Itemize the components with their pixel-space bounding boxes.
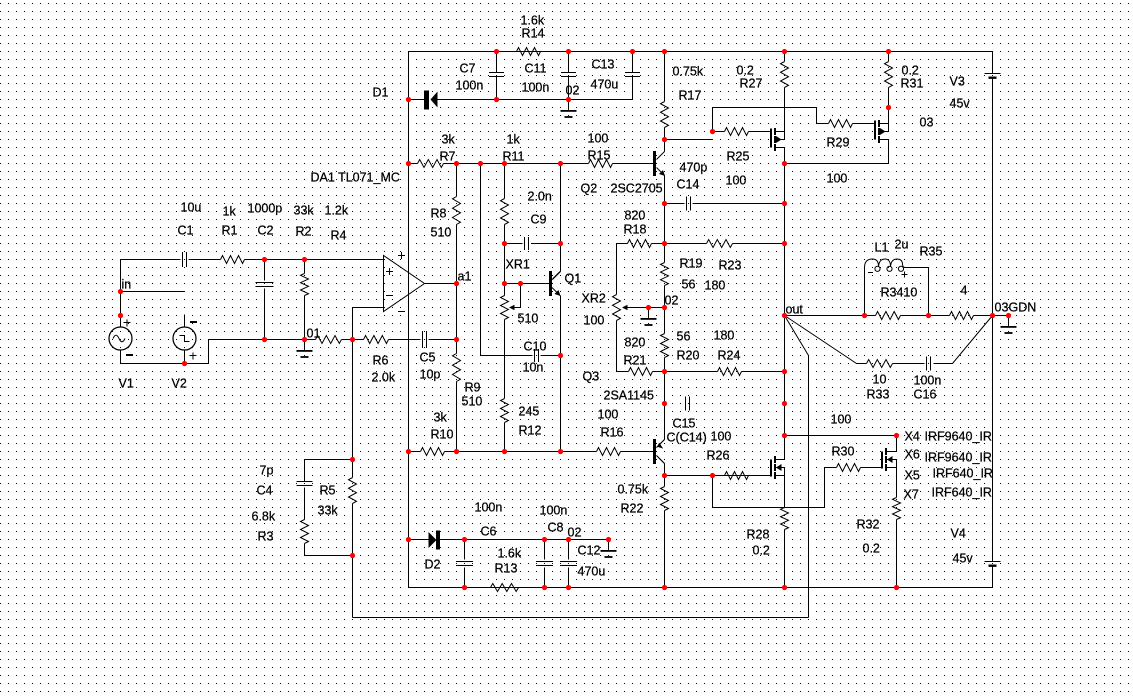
junction dot (264,259) bbox=[262, 257, 267, 262]
svg-text:R28: R28 bbox=[747, 528, 770, 542]
transistor Q3 2SA1145 (PNP) bbox=[653, 439, 665, 464]
wire y=507 gate-bias to source tie bbox=[713, 507, 825, 509]
junction dot (712,131) bbox=[710, 129, 715, 134]
svg-text:R6: R6 bbox=[373, 354, 389, 368]
wire R21 left lead y=371 bbox=[617, 371, 629, 373]
XR2 wiper arrowhead bbox=[622, 305, 628, 311]
svg-text:03: 03 bbox=[920, 116, 934, 130]
svg-text:2SC2705: 2SC2705 bbox=[611, 182, 663, 196]
capacitor C15 C(C14) bbox=[686, 397, 690, 411]
svg-text:2SA1145: 2SA1145 bbox=[604, 389, 655, 403]
svg-text:R3: R3 bbox=[258, 530, 274, 544]
wire R29 left riser bbox=[816, 108, 818, 124]
junction dot (928,315) bbox=[926, 313, 931, 318]
wire a1 down to C5/R9 node bbox=[456, 284, 458, 340]
resistor R12 245 bbox=[501, 399, 509, 423]
wire R29 to upper-right MOSFET gate bbox=[853, 123, 876, 125]
svg-text:02: 02 bbox=[665, 294, 679, 308]
svg-text:X5: X5 bbox=[905, 469, 920, 483]
svg-text:10u: 10u bbox=[181, 201, 202, 215]
wire R30 to lower-right MOSFET gate bbox=[861, 467, 883, 469]
junction dot (664,243) bbox=[662, 241, 667, 246]
diode D1 bbox=[424, 91, 438, 110]
resistor R31 0.2 bbox=[885, 62, 893, 88]
wire R33 left lead bbox=[857, 363, 867, 365]
junction dot (480,163) bbox=[478, 161, 483, 166]
mosfet upper-right X-IRF9640 (R29 gate) bbox=[875, 120, 889, 143]
wire C5 to R9 top node bbox=[429, 339, 457, 341]
wire R6 left lead bbox=[353, 339, 364, 341]
ground at node 02 (top) bbox=[561, 100, 577, 118]
svg-text:100n: 100n bbox=[456, 79, 484, 93]
svg-text:IRF640_IR: IRF640_IR bbox=[933, 467, 993, 481]
wire Q3 collector diagonal bbox=[657, 456, 665, 464]
potentiometer XR1 510 body bbox=[501, 296, 509, 320]
junction dot (784,163) bbox=[782, 161, 787, 166]
svg-text:R30: R30 bbox=[832, 445, 855, 459]
capacitor C12 470u bbox=[560, 562, 577, 566]
capacitor C11 100n bbox=[561, 73, 576, 77]
wire top +45V rail (net to V3+) bbox=[409, 51, 993, 53]
wire R35 to GDN/ground bbox=[974, 315, 1009, 317]
svg-text:C16: C16 bbox=[914, 388, 937, 402]
junction dot (408,163) bbox=[406, 161, 411, 166]
svg-text:IRF9640_IR: IRF9640_IR bbox=[925, 430, 992, 444]
resistor R13 1.6k bbox=[491, 584, 519, 592]
wire V1/V2 bottom to R4 node bbox=[121, 340, 265, 364]
capacitor C9 2.0n bbox=[525, 237, 529, 250]
svg-text:510: 510 bbox=[462, 395, 483, 409]
transistor Q1 (NPN) bbox=[549, 271, 561, 296]
junction dot (568,51) bbox=[566, 49, 571, 54]
svg-text:C13: C13 bbox=[592, 58, 615, 72]
svg-text:100: 100 bbox=[598, 408, 619, 422]
svg-text:1000p: 1000p bbox=[248, 202, 283, 216]
svg-text:01: 01 bbox=[307, 327, 321, 341]
wire R8 top lead bbox=[456, 164, 458, 197]
op-amp DA1 TL071 bbox=[384, 252, 425, 312]
svg-text:R13: R13 bbox=[495, 562, 518, 576]
wire R10 to R16 bbox=[445, 451, 597, 453]
wire R21 to R24 bbox=[653, 371, 718, 373]
wire op-amp - input bbox=[353, 307, 384, 309]
source V1 sine bbox=[109, 316, 133, 364]
wire R12 bottom lead bbox=[504, 423, 506, 452]
junction dot (504,283) bbox=[502, 281, 507, 286]
wire feedback column x=808 bbox=[808, 356, 810, 618]
junction dot (992,315) bbox=[990, 313, 995, 318]
wire R25 node riser bbox=[712, 108, 714, 132]
wire lower-right MOSFET source to R32 bbox=[896, 468, 898, 498]
svg-text:Q2: Q2 bbox=[581, 182, 598, 196]
wire R6 to C5 bbox=[389, 339, 421, 341]
svg-text:1k: 1k bbox=[223, 205, 237, 219]
wire feedback line y=617 bbox=[353, 617, 809, 619]
svg-text:820: 820 bbox=[625, 209, 646, 223]
wire R3 bottom to R5 node bbox=[305, 544, 353, 556]
svg-text:03: 03 bbox=[995, 301, 1009, 315]
wire D2 row to C6/C8/C12 tops and ground 02 bbox=[440, 539, 609, 541]
wire R10 left lead bbox=[409, 451, 421, 453]
svg-text:0.2: 0.2 bbox=[753, 544, 770, 558]
junction dot (120,315) bbox=[118, 313, 123, 318]
svg-text:C11: C11 bbox=[525, 62, 547, 76]
svg-text:XR2: XR2 bbox=[582, 292, 606, 306]
capacitor C16 100n bbox=[927, 357, 931, 371]
svg-text:45v: 45v bbox=[953, 552, 974, 566]
wire C1 left lead y=259 bbox=[121, 259, 181, 261]
ground at R2/R4 node bbox=[297, 340, 313, 358]
junction dot (784,243) bbox=[782, 241, 787, 246]
svg-text:3k: 3k bbox=[434, 411, 448, 425]
resistor R33 10 bbox=[867, 360, 893, 368]
wire R29 left lead bbox=[817, 123, 829, 125]
svg-text:C12: C12 bbox=[578, 544, 601, 558]
resistor R3 6.8k bbox=[301, 520, 309, 544]
svg-text:02: 02 bbox=[568, 526, 582, 540]
resistor R17 0.75k bbox=[661, 102, 669, 128]
svg-text:2u: 2u bbox=[895, 238, 909, 252]
wire R25 to upper-left MOSFET gate bbox=[749, 131, 772, 133]
junction dot (496,99) bbox=[494, 97, 499, 102]
wire R5 bottom to feedback line bbox=[352, 504, 354, 618]
junction dot (664,51) bbox=[662, 49, 667, 54]
svg-text:IRF640_IR: IRF640_IR bbox=[932, 486, 992, 500]
svg-text:R33: R33 bbox=[867, 388, 890, 402]
svg-text:510: 510 bbox=[518, 312, 539, 326]
svg-text:D2: D2 bbox=[425, 558, 441, 572]
wire C9 right lead bbox=[531, 243, 561, 245]
wire R30 left lead bbox=[825, 467, 837, 469]
junction dot (664,403) bbox=[662, 401, 667, 406]
wire C12 bottom lead bbox=[568, 568, 570, 588]
svg-text:C(C14): C(C14) bbox=[667, 431, 707, 445]
svg-text:V2: V2 bbox=[172, 377, 187, 391]
junction dot (456,339) bbox=[454, 337, 459, 342]
junction dot (664,475) bbox=[662, 473, 667, 478]
junction dot (784,51) bbox=[782, 49, 787, 54]
svg-text:R32: R32 bbox=[857, 518, 880, 532]
XR1 wiper arrowhead bbox=[509, 305, 515, 311]
wire upper-right MOSFET drain bbox=[888, 108, 890, 124]
wire bottom -45V rail (V4 negative) bbox=[409, 567, 993, 588]
svg-text:45v: 45v bbox=[950, 97, 971, 111]
wire Q2 collector stub bbox=[664, 140, 666, 152]
svg-text:1.6k: 1.6k bbox=[498, 547, 522, 561]
junction dot (664,203) bbox=[662, 201, 667, 206]
svg-text:V1: V1 bbox=[119, 377, 134, 391]
svg-text:Q3: Q3 bbox=[583, 370, 600, 384]
svg-text:2.0k: 2.0k bbox=[372, 371, 396, 385]
wire Q1 collector diagonal bbox=[553, 272, 561, 280]
svg-text:XR1: XR1 bbox=[506, 258, 530, 272]
wire x=480 column bbox=[480, 164, 482, 356]
resistor R28 0.2 bbox=[781, 508, 789, 530]
capacitor C8 100n bbox=[536, 562, 553, 566]
wire L1 to corner bbox=[906, 267, 929, 269]
svg-text:C7: C7 bbox=[460, 62, 476, 76]
resistor R11 1k bbox=[501, 199, 509, 225]
svg-text:C6: C6 bbox=[481, 525, 497, 539]
svg-text:1k: 1k bbox=[507, 133, 521, 147]
svg-text:R14: R14 bbox=[522, 27, 545, 41]
wire XR1 wiper tie bbox=[514, 284, 521, 308]
wire long left column x=408 (rail to D1,R7,R10 line,D2 line,bottom rail) bbox=[408, 52, 410, 588]
wire R21/R24 node down to C15 node bbox=[664, 372, 666, 404]
wire C14 left lead bbox=[665, 203, 685, 205]
wire C4 to R3 bbox=[304, 488, 306, 520]
junction dot (608,539) bbox=[606, 537, 611, 542]
battery V4 45v bbox=[985, 562, 1001, 567]
wire R11 top lead bbox=[504, 164, 506, 199]
svg-text:C4: C4 bbox=[257, 484, 273, 498]
wire R15 to Q2 base bbox=[613, 163, 655, 165]
wire net in stub bbox=[121, 291, 185, 293]
svg-text:R16: R16 bbox=[601, 426, 624, 440]
svg-text:100: 100 bbox=[588, 132, 609, 146]
junction dot (504,451) bbox=[502, 449, 507, 454]
junction dot (784,315) bbox=[782, 313, 787, 318]
wire R24 right lead bbox=[742, 371, 785, 373]
junction dot (632,51) bbox=[630, 49, 635, 54]
wire XR1 top node bbox=[505, 283, 521, 285]
svg-text:820: 820 bbox=[625, 336, 646, 350]
wire XR1 bottom through C10 crossing to R12 bbox=[504, 320, 506, 399]
junction dot (568,99) bbox=[566, 97, 571, 102]
mosfet upper-left (R25 gate) bbox=[771, 128, 785, 151]
svg-text:180: 180 bbox=[714, 329, 735, 343]
svg-text:R10: R10 bbox=[431, 428, 454, 442]
wire C6 top lead bbox=[464, 540, 466, 560]
wire R26 row bbox=[713, 475, 772, 477]
svg-text:0.75k: 0.75k bbox=[673, 65, 704, 79]
svg-text:R25: R25 bbox=[727, 150, 750, 164]
wire R18 left riser to XR2 top bbox=[616, 244, 618, 295]
svg-text:R15: R15 bbox=[588, 149, 611, 163]
svg-text:0.2: 0.2 bbox=[737, 64, 754, 78]
wire R23 right lead bbox=[733, 243, 785, 245]
svg-text:R17: R17 bbox=[679, 89, 702, 103]
junction dot (784,371) bbox=[782, 369, 787, 374]
wire x=560 down to C9 right bbox=[560, 164, 562, 244]
wire L1 right leg bbox=[928, 268, 930, 316]
wire C7 top lead bbox=[496, 52, 498, 73]
wire C2 bottom lead bbox=[264, 289, 266, 340]
wire C15 node down to Q3 emitter bbox=[664, 404, 666, 440]
wire V1 top column with in-node bbox=[120, 260, 122, 316]
resistor R8 510 bbox=[453, 197, 461, 225]
svg-text:R23: R23 bbox=[719, 259, 742, 273]
wire C7 bottom lead bbox=[496, 77, 498, 100]
wire V2 bottom lead bbox=[184, 350, 186, 364]
wire D2 anode lead bbox=[409, 539, 429, 541]
resistor R2 33k bbox=[301, 274, 309, 296]
svg-text:R31: R31 bbox=[901, 77, 924, 91]
junction dot (864,315) bbox=[862, 313, 867, 318]
svg-text:R35: R35 bbox=[920, 245, 943, 259]
junction dot (560,163) bbox=[558, 161, 563, 166]
wire R27 top lead bbox=[784, 52, 786, 62]
svg-text:470p: 470p bbox=[680, 161, 708, 175]
wire to Q1 base bbox=[521, 283, 550, 285]
capacitor C6 100n bbox=[456, 562, 473, 566]
resistor R23 180 bbox=[707, 240, 733, 248]
wire out diagonal to feedback column bbox=[785, 316, 809, 356]
svg-text:X4: X4 bbox=[905, 430, 920, 444]
wire upper-left MOSFET source down bbox=[784, 148, 786, 164]
junction dot (352,459) bbox=[350, 457, 355, 462]
wire R23 left lead bbox=[665, 243, 707, 245]
resistor R1 1k bbox=[221, 256, 245, 264]
svg-text:C5: C5 bbox=[420, 351, 436, 365]
junction dot (408,451) bbox=[406, 449, 411, 454]
resistor R10 3k bbox=[421, 448, 445, 456]
wire R4 to feedback node bbox=[342, 339, 353, 341]
svg-text:C10: C10 bbox=[524, 340, 547, 354]
wire C14 right lead bbox=[693, 203, 785, 205]
wire C2 top lead bbox=[264, 260, 266, 281]
wire C8 bottom lead bbox=[544, 568, 546, 588]
svg-text:C14: C14 bbox=[677, 178, 700, 192]
capacitor C14 470p bbox=[687, 197, 691, 211]
wire R1 to R2 top (C2 junction) bbox=[245, 259, 305, 261]
inductor L1 2u bbox=[865, 259, 908, 278]
resistor R15 100 bbox=[589, 160, 613, 168]
svg-text:in: in bbox=[122, 278, 132, 292]
svg-text:100n: 100n bbox=[540, 504, 568, 518]
wire out diagonal to R33 bbox=[785, 316, 857, 364]
svg-text:R21: R21 bbox=[624, 354, 647, 368]
junction dot (504,163) bbox=[502, 161, 507, 166]
svg-text:1.6k: 1.6k bbox=[521, 14, 545, 28]
wire R22 bottom to -rail bbox=[664, 511, 666, 588]
resistor R19 56 bbox=[661, 263, 669, 286]
junction dot (568,587) bbox=[566, 585, 571, 590]
svg-text:R2: R2 bbox=[296, 225, 312, 239]
wire Q3 collector node to R26 node bbox=[665, 475, 713, 477]
junction dot (264,339) bbox=[262, 337, 267, 342]
wire GDN node down to V4 positive bbox=[992, 316, 994, 562]
svg-text:3k: 3k bbox=[442, 133, 456, 147]
capacitor C4 7p bbox=[297, 482, 313, 486]
svg-text:X7: X7 bbox=[904, 488, 919, 502]
svg-text:0.75k: 0.75k bbox=[618, 483, 649, 497]
wire V2 top stub bbox=[184, 315, 186, 327]
resistor R21 820 bbox=[629, 368, 653, 376]
wire L1 left leg bbox=[864, 268, 866, 316]
svg-text:R24: R24 bbox=[718, 349, 741, 363]
wire R2 top lead bbox=[304, 260, 306, 274]
junction dot (464,539) bbox=[462, 537, 467, 542]
capacitor C1 10u bbox=[183, 252, 187, 267]
wire Q2 emitter down through C14/R18 nodes to R19 bbox=[664, 176, 666, 263]
svg-text:IRF9640_IR: IRF9640_IR bbox=[925, 451, 992, 465]
mosfet lower-right X-IRF640 (R30 gate) bbox=[882, 448, 897, 471]
wire C8 top lead bbox=[544, 540, 546, 560]
wire R18 right lead bbox=[652, 243, 665, 245]
wire y=107 over to R29 branch bbox=[713, 107, 817, 109]
wire R32 bottom to -rail bbox=[896, 520, 898, 588]
svg-text:R26: R26 bbox=[707, 449, 730, 463]
svg-text:L1: L1 bbox=[875, 241, 889, 255]
svg-text:R4: R4 bbox=[331, 229, 347, 243]
wire R18 left lead bbox=[617, 243, 628, 245]
junction dot (456,163) bbox=[454, 161, 459, 166]
resistor R32 0.2 bbox=[893, 498, 901, 520]
wire R2 bottom lead bbox=[304, 296, 306, 340]
svg-text:X6: X6 bbox=[905, 448, 920, 462]
junction dot (664,371) bbox=[662, 369, 667, 374]
wire R30 riser bbox=[824, 468, 826, 508]
svg-text:C1: C1 bbox=[178, 224, 194, 238]
wire C9 left lead bbox=[505, 243, 523, 245]
junction dot (560,243) bbox=[558, 241, 563, 246]
wire R19 to R20 through node 02 bbox=[664, 286, 666, 334]
svg-text:R22: R22 bbox=[621, 502, 644, 516]
wire R8 bottom to a1 node bbox=[456, 225, 458, 284]
resistor R30 100 bbox=[837, 464, 861, 472]
wire lower-left MOSFET source to R28 bbox=[784, 476, 786, 508]
wire y=163 R7 to R15 (junctions R8,R11,C9 column) bbox=[444, 163, 589, 165]
wire y=435 drain tie bbox=[785, 435, 897, 437]
wire D1 row to C7/C11/C13 bottoms y=99 bbox=[438, 99, 633, 101]
junction dot (120,291) bbox=[118, 289, 123, 294]
svg-text:10: 10 bbox=[873, 373, 887, 387]
junction dot (888,51) bbox=[886, 49, 891, 54]
svg-text:R9: R9 bbox=[465, 381, 481, 395]
svg-text:0.2: 0.2 bbox=[902, 64, 919, 78]
wire R9 bottom to R10 line bbox=[456, 382, 458, 452]
resistor R26 100 bbox=[725, 472, 749, 480]
junction dot (896,435) bbox=[894, 433, 899, 438]
svg-text:C8: C8 bbox=[548, 521, 564, 535]
junction dot (560,355) bbox=[558, 353, 563, 358]
junction dot (784,587) bbox=[782, 585, 787, 590]
svg-text:33k: 33k bbox=[318, 504, 339, 518]
wire R17 bottom lead bbox=[664, 128, 666, 140]
wire C12 top lead bbox=[568, 540, 570, 560]
junction dot (888,107) bbox=[886, 105, 891, 110]
junction dot (456,451) bbox=[454, 449, 459, 454]
resistor R18 820 bbox=[628, 240, 652, 248]
source V2 pulse bbox=[173, 315, 197, 364]
resistor R34 10 bbox=[876, 312, 901, 320]
resistor R4 1.2k bbox=[316, 336, 342, 344]
wire Q1 emitter down to C10 node bbox=[560, 296, 562, 356]
wire R31 top lead bbox=[888, 52, 890, 62]
svg-text:100: 100 bbox=[584, 314, 605, 328]
wire R7 left lead y=163 bbox=[409, 163, 418, 165]
wire R16 to Q3 base bbox=[621, 451, 655, 453]
wire C10 node down to R16 line bbox=[560, 356, 562, 452]
svg-text:a1: a1 bbox=[458, 270, 472, 284]
svg-text:100n: 100n bbox=[914, 374, 942, 388]
resistor R22 0.75k bbox=[661, 487, 669, 511]
svg-text:R8: R8 bbox=[431, 207, 447, 221]
wire R31 bottom lead bbox=[888, 88, 890, 108]
svg-text:R12: R12 bbox=[519, 424, 542, 438]
capacitor C5 10p bbox=[423, 331, 427, 348]
svg-text:100n: 100n bbox=[475, 501, 503, 515]
wire R25 left lead bbox=[713, 131, 725, 133]
svg-text:GDN: GDN bbox=[1009, 301, 1037, 315]
svg-text:D1: D1 bbox=[373, 86, 389, 100]
svg-text:R1: R1 bbox=[222, 224, 238, 238]
junction dot (784,435) bbox=[782, 433, 787, 438]
junction dot (520,283) bbox=[518, 281, 523, 286]
wire R17 bottom to R25 branch y=139 bbox=[665, 139, 713, 141]
junction dot (648,307) bbox=[646, 305, 651, 310]
